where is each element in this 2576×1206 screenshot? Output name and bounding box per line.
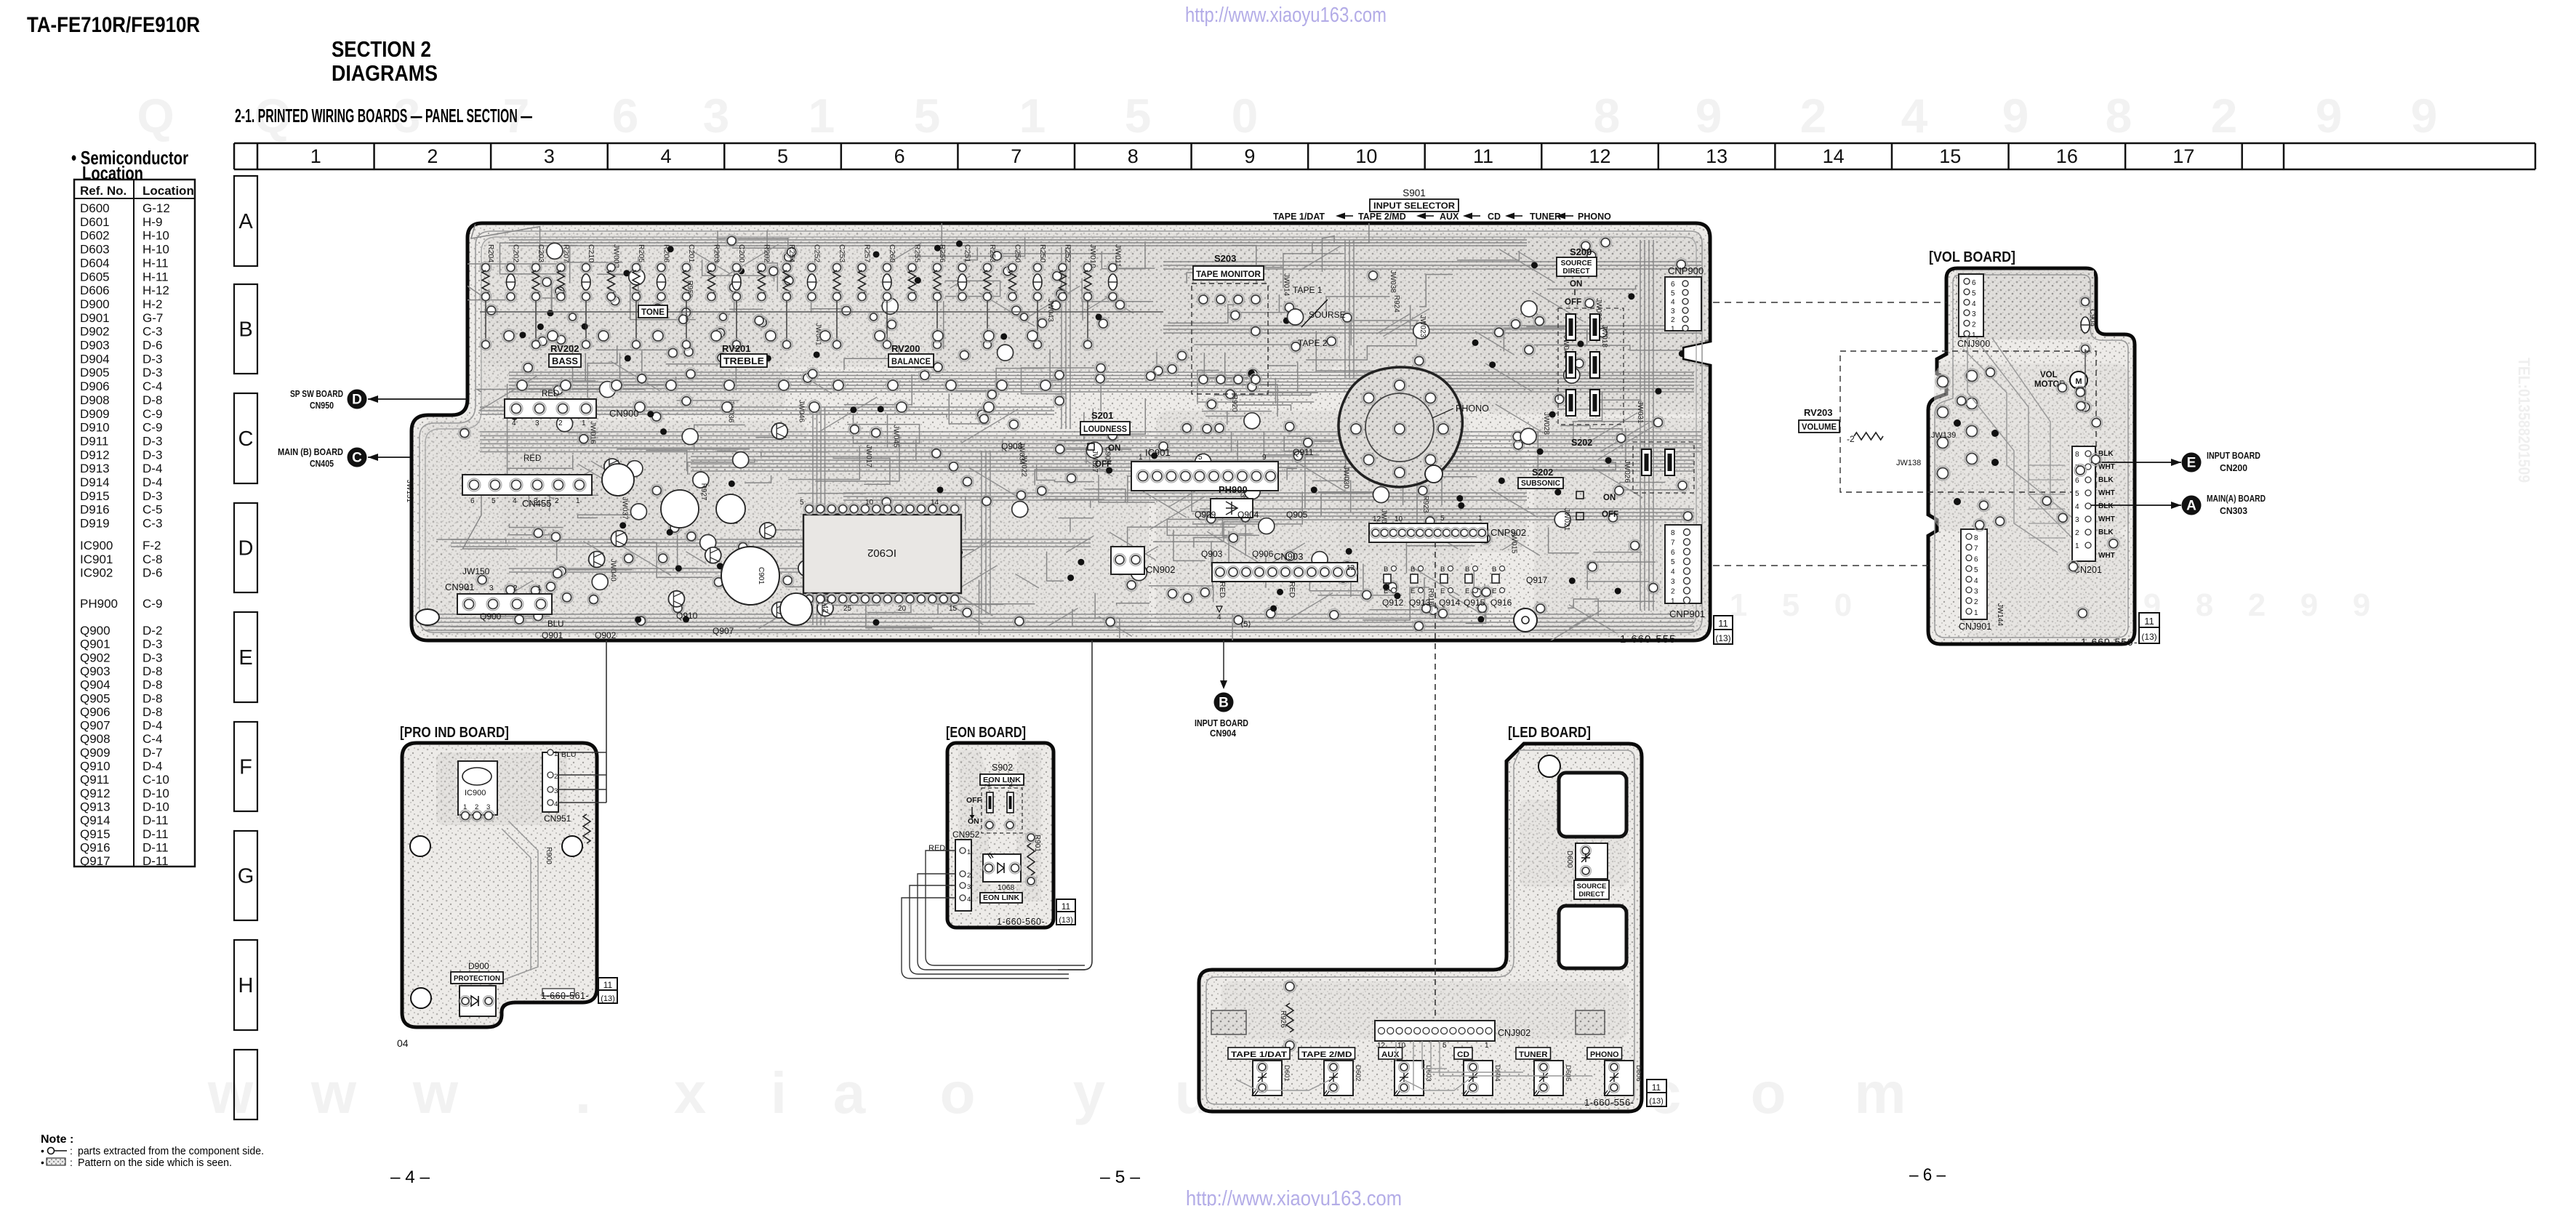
svg-text:C251: C251 — [963, 244, 972, 262]
svg-text:11: 11 — [1718, 618, 1728, 629]
svg-text:9: 9 — [2002, 89, 2029, 142]
svg-text:MAIN (B) BOARD: MAIN (B) BOARD — [278, 447, 343, 457]
svg-text:Q915: Q915 — [1464, 598, 1485, 608]
svg-text:VOLUME: VOLUME — [1802, 423, 1837, 432]
svg-text:H-9: H-9 — [143, 215, 162, 229]
svg-text:D-8: D-8 — [143, 705, 162, 719]
svg-text:CD: CD — [1488, 212, 1501, 222]
svg-text:11: 11 — [603, 980, 613, 990]
svg-text:[EON BOARD]: [EON BOARD] — [946, 725, 1026, 741]
svg-text:D-6: D-6 — [143, 566, 162, 580]
svg-text:9: 9 — [2411, 89, 2438, 142]
svg-text:H-2: H-2 — [143, 297, 162, 311]
svg-text:12: 12 — [1589, 145, 1611, 167]
svg-text:B: B — [1219, 696, 1229, 711]
svg-text:Q908: Q908 — [80, 732, 111, 746]
svg-text:4: 4 — [1671, 568, 1675, 576]
svg-text:Q912: Q912 — [1382, 598, 1404, 608]
svg-text:S203: S203 — [1214, 253, 1236, 264]
svg-text:2: 2 — [1974, 598, 1978, 606]
svg-text:D916: D916 — [80, 503, 110, 517]
svg-text:JW144: JW144 — [1996, 603, 2004, 627]
svg-text:2-1. PRINTED WIRING BOARDS — P: 2-1. PRINTED WIRING BOARDS — PANEL SECTI… — [235, 105, 532, 126]
svg-text:G: G — [238, 865, 254, 888]
svg-text:Q913: Q913 — [80, 800, 111, 813]
svg-text:04: 04 — [397, 1037, 409, 1049]
svg-text:7: 7 — [1974, 545, 1978, 553]
svg-text:2: 2 — [1671, 587, 1675, 595]
svg-text:B: B — [1411, 566, 1415, 574]
svg-text:9: 9 — [1696, 89, 1722, 142]
svg-text:CNJ901: CNJ901 — [1959, 622, 1991, 632]
svg-text:R254: R254 — [787, 244, 796, 262]
svg-text:JW016: JW016 — [589, 421, 597, 444]
svg-text:(13): (13) — [1059, 916, 1073, 925]
svg-text:G-7: G-7 — [143, 311, 163, 325]
svg-text:TAPE 1/DAT: TAPE 1/DAT — [1231, 1050, 1287, 1059]
svg-text:1: 1 — [576, 497, 580, 505]
svg-text:JW030: JW030 — [1341, 466, 1349, 489]
svg-text:D906: D906 — [80, 379, 110, 393]
svg-text:Q911: Q911 — [1293, 447, 1314, 457]
svg-text:10: 10 — [1395, 515, 1403, 523]
svg-text:1: 1 — [967, 848, 971, 856]
svg-text:R900: R900 — [545, 847, 553, 864]
svg-text:C210: C210 — [587, 244, 595, 262]
svg-text:TAPE MONITOR: TAPE MONITOR — [1196, 270, 1261, 279]
svg-text:Ref. No.: Ref. No. — [80, 184, 127, 198]
svg-text:D914: D914 — [80, 475, 110, 489]
svg-text:C901: C901 — [757, 567, 765, 584]
svg-text:H-11: H-11 — [143, 256, 169, 270]
svg-text:C-3: C-3 — [143, 517, 162, 531]
svg-text:3: 3 — [1671, 578, 1675, 586]
svg-text:C202: C202 — [512, 244, 521, 262]
svg-text:D904: D904 — [80, 352, 110, 366]
svg-text:1: 1 — [463, 803, 467, 811]
svg-text:C-9: C-9 — [143, 597, 162, 611]
svg-text:⟨5⟩: ⟨5⟩ — [1240, 620, 1251, 629]
svg-text:A: A — [238, 210, 253, 233]
svg-text:D-4: D-4 — [143, 760, 162, 773]
svg-text:BLK: BLK — [2098, 476, 2114, 484]
svg-text:Q912: Q912 — [80, 787, 111, 800]
svg-text:R924: R924 — [1392, 295, 1400, 313]
svg-text:D-3: D-3 — [143, 352, 162, 366]
svg-text:Q900: Q900 — [80, 624, 111, 638]
svg-text:5: 5 — [1972, 289, 1976, 297]
svg-text:16: 16 — [2056, 145, 2078, 167]
svg-text:TAPE 2: TAPE 2 — [1298, 338, 1328, 348]
svg-text:WHT: WHT — [2098, 463, 2115, 471]
svg-text:2: 2 — [2211, 89, 2238, 142]
svg-text:INPUT SELECTOR: INPUT SELECTOR — [1373, 202, 1456, 211]
svg-text:5: 5 — [2075, 490, 2079, 498]
svg-text:JW038: JW038 — [1389, 270, 1397, 294]
svg-text:JW021: JW021 — [1562, 508, 1570, 531]
svg-text:ON: ON — [1570, 280, 1582, 289]
svg-text:IC901: IC901 — [80, 552, 113, 566]
svg-text:D606: D606 — [1634, 1065, 1642, 1082]
svg-text:D910: D910 — [80, 421, 110, 435]
svg-text:R250: R250 — [1038, 244, 1047, 262]
svg-text:1-660-555-: 1-660-555- — [1620, 633, 1680, 646]
svg-text:9: 9 — [1262, 454, 1267, 462]
svg-text:D605: D605 — [1564, 1065, 1572, 1082]
svg-text:BLU: BLU — [561, 750, 576, 759]
svg-text:Q902: Q902 — [80, 651, 111, 664]
svg-text:D601: D601 — [1283, 1065, 1291, 1082]
svg-text:D: D — [238, 537, 254, 560]
svg-text:4: 4 — [513, 497, 517, 505]
svg-text:(13): (13) — [601, 994, 615, 1003]
svg-text:D600: D600 — [80, 201, 110, 215]
svg-text:Q907: Q907 — [80, 719, 111, 733]
svg-text:1: 1 — [1478, 515, 1482, 523]
svg-text:RED: RED — [1288, 582, 1296, 598]
svg-text:x: x — [674, 1061, 707, 1125]
svg-text:2: 2 — [554, 773, 558, 781]
svg-text:2: 2 — [513, 584, 518, 592]
svg-text:D-8: D-8 — [143, 691, 162, 705]
svg-text:E: E — [1440, 587, 1445, 595]
svg-text:PH900: PH900 — [80, 597, 118, 611]
svg-text:5: 5 — [777, 145, 788, 167]
svg-text:C252: C252 — [813, 244, 822, 262]
svg-text:SOURCE: SOURCE — [1577, 883, 1607, 891]
svg-text:5: 5 — [491, 497, 496, 505]
svg-text:C203: C203 — [537, 244, 545, 262]
svg-text:JW014: JW014 — [1283, 273, 1291, 297]
svg-text:ON: ON — [968, 817, 979, 826]
svg-text:w: w — [207, 1061, 254, 1125]
svg-text:INPUT BOARD: INPUT BOARD — [2207, 450, 2260, 461]
svg-text:Q: Q — [137, 89, 174, 142]
svg-text:[VOL BOARD]: [VOL BOARD] — [1929, 249, 2015, 265]
svg-text:OFF: OFF — [966, 796, 982, 805]
svg-text:Q913: Q913 — [1409, 598, 1431, 608]
svg-text:TAPE 2/MD: TAPE 2/MD — [1301, 1050, 1352, 1059]
svg-text:6: 6 — [2075, 477, 2079, 485]
svg-text:C904: C904 — [2088, 309, 2096, 326]
svg-text:RED: RED — [542, 390, 559, 398]
svg-text:MAIN(A) BOARD: MAIN(A) BOARD — [2207, 493, 2266, 504]
svg-text:R253: R253 — [988, 244, 997, 262]
svg-text:Q916: Q916 — [1490, 598, 1512, 608]
svg-text:Location: Location — [143, 184, 194, 198]
svg-text:1: 1 — [1974, 609, 1978, 617]
svg-text:EON LINK: EON LINK — [983, 894, 1020, 902]
svg-text:5: 5 — [1782, 587, 1799, 623]
svg-text:TAPE 1: TAPE 1 — [1293, 285, 1323, 295]
svg-text:8: 8 — [1671, 529, 1675, 537]
svg-text:JW138: JW138 — [1896, 459, 1921, 467]
svg-text:WHT: WHT — [2098, 552, 2115, 560]
svg-text:DIRECT: DIRECT — [1578, 891, 1605, 899]
svg-text:JW017: JW017 — [864, 445, 872, 468]
svg-text:CNJ902: CNJ902 — [1498, 1028, 1530, 1038]
svg-text:5: 5 — [1974, 566, 1978, 574]
svg-text:Q902: Q902 — [595, 630, 617, 640]
svg-text:Q901: Q901 — [80, 638, 111, 651]
svg-text:BASS: BASS — [552, 355, 578, 366]
svg-text:1: 1 — [1485, 1042, 1489, 1050]
svg-text:JW018: JW018 — [1600, 325, 1608, 348]
svg-text:Q910: Q910 — [676, 611, 698, 621]
svg-text:(13): (13) — [2141, 632, 2156, 642]
svg-text:TUNER: TUNER — [1519, 1050, 1548, 1059]
svg-text:4: 4 — [1901, 89, 1928, 142]
svg-text:D909: D909 — [80, 407, 110, 421]
svg-text:SECTION 2: SECTION 2 — [332, 36, 431, 62]
svg-text:2: 2 — [1972, 321, 1976, 329]
svg-text:8: 8 — [2075, 451, 2079, 459]
svg-text:Q917: Q917 — [80, 854, 111, 868]
svg-text:http://www.xiaoyu163.com: http://www.xiaoyu163.com — [1186, 1187, 1402, 1206]
svg-text:JW028: JW028 — [1542, 412, 1550, 435]
svg-text:D-11: D-11 — [143, 827, 169, 841]
svg-text:S901: S901 — [1403, 188, 1426, 198]
svg-text:C253: C253 — [838, 244, 846, 262]
svg-text:Q911: Q911 — [80, 773, 109, 787]
svg-text:14: 14 — [1823, 145, 1845, 167]
svg-text:D919: D919 — [80, 517, 110, 531]
svg-text:TUNER: TUNER — [1530, 212, 1561, 222]
svg-text:Q903: Q903 — [1201, 549, 1223, 559]
svg-text:IC902: IC902 — [80, 566, 113, 580]
svg-text:R204: R204 — [486, 244, 495, 262]
svg-text:CNJ900: CNJ900 — [1957, 339, 1990, 349]
svg-text:3: 3 — [1974, 588, 1978, 596]
svg-text:2: 2 — [2248, 587, 2266, 623]
svg-text:OFF: OFF — [1602, 510, 1618, 519]
svg-text:B: B — [1492, 566, 1496, 574]
svg-text:CNP901: CNP901 — [1669, 608, 1705, 619]
svg-text:R203: R203 — [713, 244, 721, 262]
svg-text:0: 0 — [1834, 587, 1852, 623]
svg-text:JW151: JW151 — [405, 480, 413, 503]
svg-text:8: 8 — [1594, 89, 1621, 142]
svg-text:.: . — [575, 1061, 591, 1125]
svg-text:1: 1 — [1139, 454, 1143, 462]
svg-text:1: 1 — [1671, 326, 1675, 334]
svg-text:-1: -1 — [984, 781, 991, 789]
svg-text:R901: R901 — [1033, 835, 1041, 852]
svg-text:D-6: D-6 — [143, 339, 162, 353]
svg-text:3: 3 — [703, 89, 730, 142]
svg-text:C-10: C-10 — [143, 773, 169, 787]
svg-text:C-9: C-9 — [143, 407, 162, 421]
svg-text:C: C — [238, 427, 254, 451]
svg-text:8: 8 — [2196, 587, 2213, 623]
svg-text:Q910: Q910 — [80, 760, 111, 773]
svg-text:E: E — [1492, 587, 1496, 595]
svg-text:IC900: IC900 — [465, 789, 486, 797]
svg-text:JW139: JW139 — [1931, 431, 1956, 440]
svg-text:BLK: BLK — [2098, 502, 2114, 510]
svg-text:Q916: Q916 — [80, 840, 111, 854]
svg-text:6: 6 — [612, 89, 639, 142]
svg-text:2: 2 — [967, 872, 971, 880]
svg-text:CN900: CN900 — [609, 408, 638, 419]
svg-text:6: 6 — [1974, 555, 1978, 563]
svg-text:Q901: Q901 — [542, 630, 563, 640]
svg-text:4: 4 — [512, 419, 516, 427]
svg-text:6: 6 — [1972, 279, 1976, 287]
svg-text:3: 3 — [544, 145, 555, 167]
svg-text:Q917: Q917 — [1526, 575, 1548, 585]
svg-text:(13): (13) — [1649, 1097, 1664, 1106]
svg-text:RV201: RV201 — [722, 343, 751, 354]
svg-text:11: 11 — [2144, 616, 2154, 627]
svg-text:parts extracted from the compo: parts extracted from the component side. — [78, 1145, 264, 1157]
svg-text:D912: D912 — [80, 448, 110, 462]
svg-text:15: 15 — [1939, 145, 1961, 167]
svg-text:5: 5 — [914, 89, 941, 142]
svg-text:D-10: D-10 — [143, 800, 169, 813]
svg-text:TREBLE: TREBLE — [723, 355, 764, 366]
svg-text:IC900: IC900 — [80, 539, 113, 552]
svg-text:C201: C201 — [687, 244, 696, 262]
svg-text:4: 4 — [660, 145, 671, 167]
svg-text:1-660-559-: 1-660-559- — [2081, 636, 2138, 648]
svg-text:[PRO IND BOARD]: [PRO IND BOARD] — [400, 725, 509, 741]
svg-text:H: H — [238, 974, 254, 997]
svg-text:1-660-560-: 1-660-560- — [997, 917, 1045, 927]
svg-text::: : — [70, 1145, 73, 1157]
svg-text:CNP902: CNP902 — [1490, 527, 1526, 538]
svg-text:OFF: OFF — [1565, 298, 1581, 307]
svg-text:D911: D911 — [80, 434, 108, 448]
svg-text:D900: D900 — [468, 961, 489, 971]
svg-text:JW046: JW046 — [798, 400, 806, 423]
svg-text:CN303: CN303 — [2220, 505, 2247, 516]
svg-text:8: 8 — [1974, 534, 1978, 542]
svg-text:S201: S201 — [1091, 410, 1113, 421]
svg-text:RED: RED — [928, 844, 945, 853]
svg-text:Q906: Q906 — [1252, 549, 1274, 559]
svg-text:http://www.xiaoyu163.com: http://www.xiaoyu163.com — [1185, 4, 1387, 27]
svg-text:6: 6 — [1671, 549, 1675, 557]
svg-text:D903: D903 — [80, 339, 110, 353]
svg-text:D-11: D-11 — [143, 840, 169, 854]
svg-text:D-4: D-4 — [143, 462, 162, 475]
svg-text:JW040: JW040 — [609, 559, 617, 582]
svg-text:D-3: D-3 — [143, 448, 162, 462]
svg-text:4: 4 — [1217, 614, 1221, 622]
svg-text:CN902: CN902 — [1146, 564, 1175, 575]
svg-text:JW026: JW026 — [1623, 460, 1631, 483]
svg-text:Q904: Q904 — [1237, 510, 1259, 520]
svg-text:PHONO: PHONO — [1456, 403, 1489, 414]
svg-text:11: 11 — [1062, 901, 1071, 912]
svg-text:D-11: D-11 — [143, 813, 169, 827]
svg-text:D902: D902 — [80, 325, 110, 339]
svg-text:BLK: BLK — [2098, 528, 2114, 536]
svg-text:D-8: D-8 — [143, 678, 162, 692]
svg-text:Q903: Q903 — [80, 664, 111, 678]
svg-text:6: 6 — [1671, 281, 1675, 289]
svg-text:2: 2 — [1800, 89, 1827, 142]
svg-text:JW023: JW023 — [1419, 315, 1427, 338]
svg-text:C-4: C-4 — [143, 732, 162, 746]
svg-text:5: 5 — [1671, 289, 1675, 297]
svg-text:3: 3 — [1671, 307, 1675, 315]
svg-text:PH900: PH900 — [1219, 484, 1248, 495]
svg-text:5: 5 — [1671, 558, 1675, 566]
svg-text:TA-FE710R/FE910R: TA-FE710R/FE910R — [27, 13, 200, 37]
svg-text:1: 1 — [537, 584, 542, 592]
svg-text:20: 20 — [898, 605, 907, 613]
svg-text:m: m — [1854, 1061, 1906, 1125]
svg-text:CN405: CN405 — [310, 459, 334, 469]
svg-text:(13): (13) — [1715, 633, 1730, 643]
svg-text:IC902: IC902 — [867, 547, 896, 559]
svg-text:Q908: Q908 — [1001, 441, 1023, 451]
svg-text:E: E — [1384, 587, 1388, 595]
svg-text:3: 3 — [489, 584, 494, 592]
svg-text:CN904: CN904 — [1210, 728, 1237, 739]
svg-text:R927: R927 — [699, 483, 707, 501]
svg-text:5: 5 — [1125, 89, 1152, 142]
svg-text:WHT: WHT — [2098, 515, 2115, 523]
svg-text:17: 17 — [2172, 145, 2194, 167]
svg-text:S202: S202 — [1532, 467, 1553, 478]
svg-text:D-10: D-10 — [143, 787, 169, 800]
svg-text:a: a — [833, 1061, 866, 1125]
svg-text:w: w — [412, 1061, 459, 1125]
svg-text:R207: R207 — [562, 244, 571, 262]
svg-text:TAPE 2/MD: TAPE 2/MD — [1358, 212, 1406, 222]
svg-text:D-8: D-8 — [143, 664, 162, 678]
svg-text:JW043: JW043 — [1046, 299, 1054, 322]
svg-text:D-3: D-3 — [143, 489, 162, 503]
svg-text:3: 3 — [2075, 516, 2079, 524]
svg-text:9: 9 — [2300, 587, 2318, 623]
svg-text:R257: R257 — [863, 244, 872, 262]
svg-text:SUBSONIC: SUBSONIC — [1521, 479, 1560, 488]
svg-text:14: 14 — [931, 499, 939, 507]
svg-text:5: 5 — [1440, 515, 1445, 523]
svg-text:E: E — [2187, 456, 2196, 471]
svg-text:o: o — [940, 1061, 976, 1125]
svg-text:6: 6 — [470, 497, 475, 505]
svg-text:C200: C200 — [737, 244, 746, 262]
svg-text:R252: R252 — [1064, 244, 1072, 262]
svg-text:R202: R202 — [763, 244, 771, 262]
svg-text:H-10: H-10 — [143, 229, 169, 243]
svg-text:CN903: CN903 — [1274, 551, 1303, 562]
svg-text:5: 5 — [1198, 454, 1203, 462]
svg-text:PHONO: PHONO — [1590, 1050, 1619, 1059]
svg-text:D-7: D-7 — [143, 746, 162, 760]
svg-text:Q905: Q905 — [80, 691, 111, 705]
svg-text:o: o — [1751, 1061, 1786, 1125]
svg-text:0: 0 — [1232, 89, 1259, 142]
svg-text:4: 4 — [554, 800, 558, 808]
svg-text:H-11: H-11 — [143, 270, 169, 284]
svg-text:RV200: RV200 — [891, 343, 920, 354]
svg-text:S200: S200 — [1570, 246, 1592, 257]
svg-text:D-4: D-4 — [143, 719, 162, 733]
svg-text:D-3: D-3 — [143, 651, 162, 664]
svg-text:25: 25 — [843, 605, 852, 613]
svg-text:C-8: C-8 — [143, 552, 162, 566]
svg-text:M: M — [2075, 377, 2082, 386]
svg-text:BLU: BLU — [547, 620, 563, 629]
svg-text:[LED BOARD]: [LED BOARD] — [1508, 725, 1591, 741]
svg-text:12: 12 — [1347, 564, 1355, 572]
